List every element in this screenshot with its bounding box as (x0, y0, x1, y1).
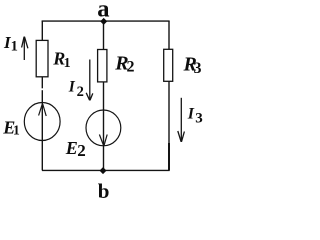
svg-text:3: 3 (195, 110, 203, 126)
svg-text:1: 1 (64, 56, 71, 71)
svg-text:I: I (187, 106, 195, 123)
svg-text:a: a (97, 0, 109, 22)
svg-text:2: 2 (127, 58, 135, 75)
svg-text:E: E (65, 138, 78, 158)
svg-text:1: 1 (11, 39, 18, 55)
svg-text:I: I (68, 78, 76, 95)
svg-text:1: 1 (13, 123, 20, 138)
svg-text:b: b (98, 179, 110, 199)
svg-text:3: 3 (194, 60, 202, 77)
svg-text:2: 2 (77, 84, 84, 100)
svg-text:2: 2 (77, 141, 86, 160)
